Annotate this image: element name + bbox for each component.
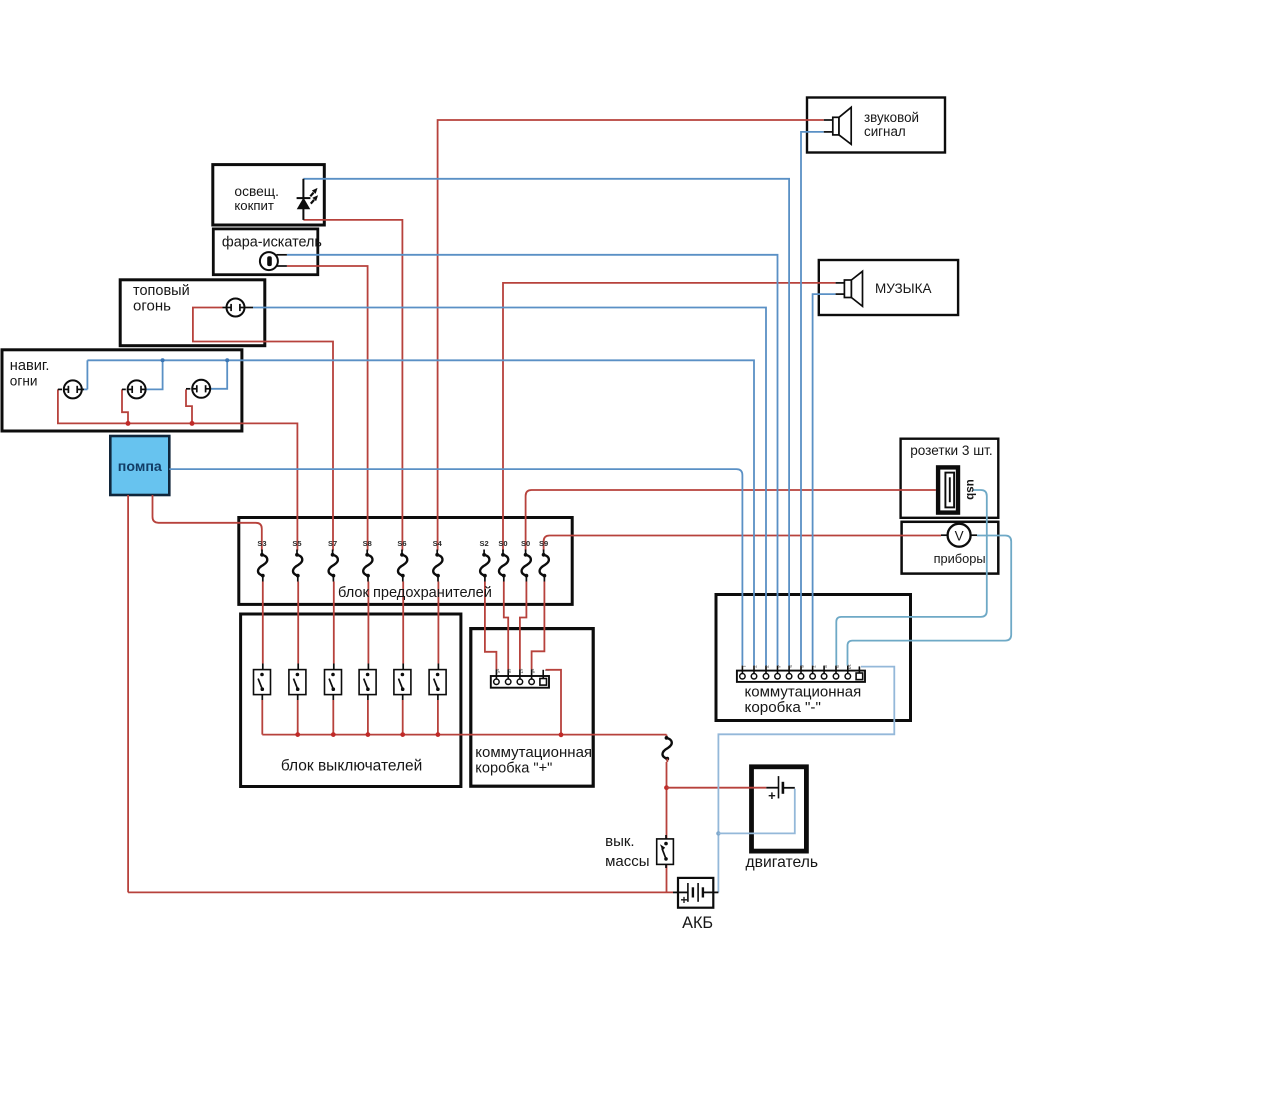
label: фара-искатель — [222, 234, 322, 250]
junction dots on red bus — [295, 732, 563, 737]
fuse labels — [257, 539, 548, 548]
svg-text:помпа: помпа — [118, 459, 162, 475]
wire: + strip output to red bus — [546, 670, 562, 735]
wire: mass fuse to junction and вык.массы — [666, 759, 669, 839]
svg-text:освещ.: освещ. — [234, 184, 279, 199]
wire: фара-искатель blue to '-' terminal 4 — [287, 255, 778, 666]
svg-text:фара-искатель: фара-искатель — [222, 234, 322, 250]
svg-text:приборы: приборы — [934, 551, 986, 566]
wires: switch outputs down to red bus — [262, 700, 438, 735]
wire: приборы red to fuse S9 — [544, 536, 941, 551]
device box: помпа (pump, blue filled) — [110, 436, 169, 495]
device box: розетки 3 шт. (sockets) — [901, 439, 999, 518]
svg-text:блок выключателей: блок выключателей — [281, 758, 422, 775]
wire: двигатель minus branch — [718, 789, 794, 834]
label: блок предохранителей — [338, 585, 492, 601]
svg-text:s7: s7 — [519, 669, 524, 674]
svg-text:звуковой: звуковой — [864, 110, 919, 125]
wires: навиг lamps blue risers — [82, 360, 227, 389]
tiny pin labels of коробка '-' — [741, 664, 851, 670]
svg-text:S0: S0 — [498, 539, 507, 548]
svg-text:S3: S3 — [257, 539, 266, 548]
svg-text:S2: S2 — [480, 539, 489, 548]
lamp 2 of навиг. огни — [122, 380, 146, 398]
wire: АКБ minus bus to '-' square terminal — [718, 667, 894, 893]
svg-text:s6: s6 — [507, 669, 512, 674]
lamp icon of топовый огонь — [223, 299, 254, 317]
label: блок выключателей — [281, 758, 422, 775]
speaker icon of МУЗЫКА — [836, 271, 863, 306]
svg-text:навиг.: навиг. — [10, 358, 50, 374]
wire: помпа blue to '-' terminal 1 — [169, 469, 742, 665]
svg-text:кокпит: кокпит — [234, 198, 274, 213]
svg-text:V: V — [955, 528, 964, 543]
svg-text:коробка "+": коробка "+" — [475, 760, 552, 776]
wire: навиг lamp2 red drop — [122, 389, 128, 423]
wire: помпа left red feed down to battery bus — [127, 495, 129, 892]
label: освещ. кокпит — [234, 184, 279, 213]
wire: main red bus y=734.6 to mass fuse — [262, 735, 666, 738]
svg-text:огни: огни — [10, 373, 38, 388]
device box: приборы (instruments) — [902, 522, 999, 574]
svg-text:розетки 3 шт.: розетки 3 шт. — [910, 443, 992, 458]
wire: топовый огонь blue to '-' terminal 3 — [253, 308, 766, 666]
label: коммутационная коробка '+' — [475, 744, 592, 777]
wire: приборы blue to '-' terminal 10 — [848, 536, 1012, 666]
lamp icon of фара-искатель — [260, 252, 287, 270]
label: МУЗЫКА — [875, 281, 932, 296]
wire: фара-искатель red to fuse S8 — [287, 266, 368, 551]
wire: fuse S9 output to + terminal 4 — [532, 582, 545, 670]
svg-text:S4: S4 — [433, 539, 443, 548]
wire: помпа right red feed to fuse S3 — [153, 495, 262, 551]
wire: навиг. огни blue bus to '-' terminal 2 — [87, 360, 754, 665]
battery АКБ — [673, 878, 718, 908]
tiny pin labels of коробка '+' — [495, 668, 549, 674]
label: розетки 3 шт. — [910, 443, 992, 458]
svg-text:двигатель: двигатель — [746, 854, 819, 871]
svg-text:S0: S0 — [521, 539, 530, 548]
LED icon of освещ. кокпит — [297, 179, 318, 220]
svg-text:блок предохранителей: блок предохранителей — [338, 585, 492, 601]
box: коммутационная коробка '-' — [716, 595, 911, 721]
label: коммутационная коробка '-' — [745, 683, 862, 716]
wire: звуковой сигнал red to fuse S4 — [438, 120, 824, 551]
svg-text:10: 10 — [847, 664, 852, 670]
lamp 1 of навиг. огни — [58, 380, 84, 398]
svg-text:+: + — [768, 788, 776, 803]
box: блок предохранителей (fuse block) — [239, 518, 572, 605]
device box: двигатель (engine, thick border) — [752, 767, 807, 851]
svg-text:коммутационная: коммутационная — [475, 744, 592, 761]
wire: розетки red to fuse S0b — [526, 490, 936, 551]
wire: bottom red bus помпа to АКБ + — [128, 891, 673, 893]
terminal strip of коробка '+' — [491, 670, 549, 688]
device box: звуковой сигнал (horn) — [807, 98, 945, 153]
terminal strip of коробка '-' — [737, 666, 865, 682]
wire: МУЗЫКА red to fuse S0a — [503, 283, 836, 551]
switch вык. массы — [657, 835, 674, 868]
wire: освещ. кокпит blue to '-' terminal 5 — [303, 179, 789, 666]
svg-text:usb: usb — [964, 479, 977, 500]
svg-text:массы: массы — [605, 853, 649, 870]
wire: освещ. кокпит red to fuse S6 — [303, 220, 402, 551]
label: usb rotated — [964, 479, 977, 500]
wires: fuse outputs S3..S4 down to switches — [263, 582, 439, 664]
device box: МУЗЫКА (music) — [819, 260, 958, 315]
svg-text:АКБ: АКБ — [682, 914, 713, 932]
USB socket icon of розетки — [938, 467, 958, 512]
wire: fuse S2 output to + terminal 1 — [485, 582, 497, 670]
wire: навиг lamp3 red drop — [186, 389, 192, 423]
svg-text:S9: S9 — [539, 539, 548, 548]
battery symbol inside двигатель — [766, 776, 795, 803]
label: помпа — [118, 459, 162, 475]
wire: fuse S0a output to + terminal 2 — [504, 582, 508, 670]
svg-text:S6: S6 — [397, 539, 406, 548]
junction dots on навиг red bus — [126, 421, 195, 426]
device box: топовый огонь (masthead light) — [120, 280, 265, 346]
wire: вык.массы output down to АКБ bus — [666, 864, 668, 892]
speaker icon of звуковой сигнал — [824, 107, 851, 144]
label: топовый огонь — [133, 283, 190, 314]
label: АКБ — [682, 914, 713, 932]
label: приборы — [934, 551, 986, 566]
svg-text:S5: S5 — [292, 539, 301, 548]
junction dot on АКБ minus bus — [716, 831, 720, 835]
wire: навиг. огни red bus to fuse S5 — [58, 389, 298, 550]
device box: освещ. кокпит (cockpit light) — [213, 165, 324, 225]
switch block: 6 toggle switches — [254, 664, 447, 701]
label: звуковой сигнал — [864, 110, 919, 139]
svg-text:S7: S7 — [328, 539, 337, 548]
svg-text:коммутационная: коммутационная — [745, 683, 862, 700]
box: блок выключателей (switch block) — [241, 614, 461, 787]
svg-text:коробка "-": коробка "-" — [745, 699, 821, 716]
label: вык. массы — [605, 833, 649, 870]
wire: звуковой сигнал blue to '-' terminal 6 — [801, 132, 824, 666]
svg-text:—: — — [545, 668, 550, 673]
fuse block: 10 fuse symbols S3 S5 S7 S8 S6 S4 S2 S0 S0 S9 — [258, 550, 549, 582]
svg-text:сигнал: сигнал — [864, 124, 906, 139]
wire: топовый огонь red loop to fuse S7 — [193, 308, 333, 551]
label: навиг. огни — [10, 358, 50, 389]
box: коммутационная коробка '+' — [471, 629, 593, 787]
svg-text:s5: s5 — [495, 669, 500, 674]
fuse: mass fuse above вык.массы — [662, 736, 671, 761]
svg-text:s8: s8 — [531, 669, 536, 674]
svg-text:S8: S8 — [363, 539, 372, 548]
wire: МУЗЫКА blue to '-' terminal 7 — [813, 294, 836, 665]
svg-text:вык.: вык. — [605, 833, 634, 850]
voltmeter icon of приборы — [941, 524, 977, 547]
junction dot battery positive node — [664, 785, 669, 790]
lamp 3 of навиг. огни — [186, 380, 210, 398]
device box: фара-искатель (searchlight) — [213, 229, 317, 275]
wire: розетки USB blue to '-' terminal 9 — [836, 490, 987, 666]
label: двигатель — [746, 854, 819, 871]
svg-text:МУЗЫКА: МУЗЫКА — [875, 281, 932, 296]
device box: навиг. огни (navigation lights) — [2, 350, 242, 431]
svg-text:+: + — [680, 893, 687, 907]
svg-text:огонь: огонь — [133, 298, 171, 315]
wire: red feed to двигатель + — [667, 787, 767, 789]
junction dots on навиг blue bus — [161, 358, 230, 362]
wire: fuse S0b output to + terminal 3 — [520, 582, 527, 670]
